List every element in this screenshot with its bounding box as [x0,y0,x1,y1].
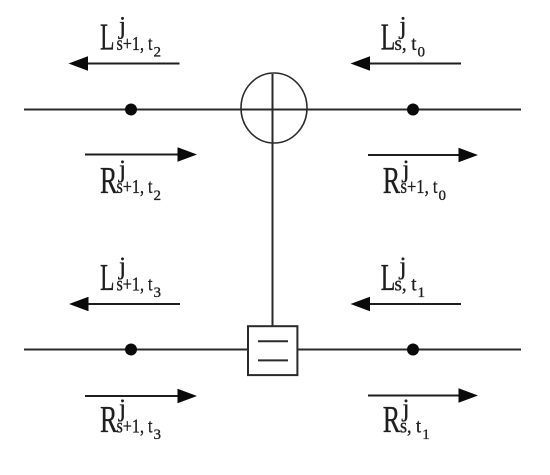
svg-text:L: L [381,17,396,59]
svg-text:3: 3 [154,427,162,443]
svg-text:R: R [383,160,401,202]
svg-text:2: 2 [154,45,162,61]
svg-text:s, t: s, t [395,33,417,55]
svg-text:R: R [383,399,401,441]
svg-text:s+1, t: s+1, t [117,415,153,437]
svg-text:s+1, t: s+1, t [117,176,153,198]
svg-text:1: 1 [418,285,426,301]
svg-text:R: R [100,399,118,441]
svg-text:0: 0 [439,188,447,204]
svg-text:s+1, t: s+1, t [401,176,438,198]
svg-text:L: L [381,257,396,299]
svg-text:1: 1 [422,427,430,443]
svg-text:R: R [100,160,118,202]
svg-text:L: L [100,257,115,299]
svg-text:L: L [100,17,115,59]
svg-text:2: 2 [154,188,162,204]
svg-text:s+1, t: s+1, t [117,273,153,295]
svg-text:0: 0 [418,45,426,61]
svg-text:s, t: s, t [395,273,417,295]
svg-text:3: 3 [154,285,162,301]
svg-text:s+1, t: s+1, t [117,33,153,55]
svg-text:s, t: s, t [400,415,421,437]
